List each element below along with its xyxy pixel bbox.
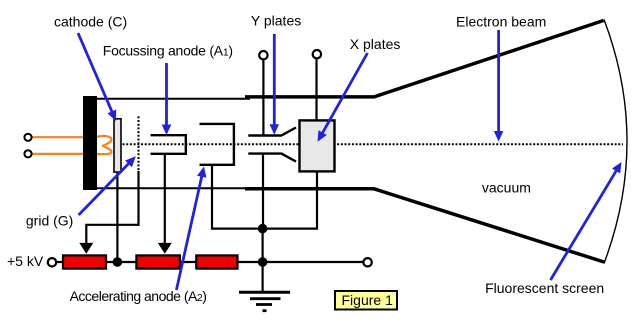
svg-text:Accelerating anode (A2): Accelerating anode (A2) — [70, 288, 207, 304]
svg-text:X plates: X plates — [350, 36, 401, 52]
svg-text:Electron beam: Electron beam — [456, 14, 546, 30]
svg-text:Y plates: Y plates — [251, 13, 301, 29]
svg-text:cathode (C): cathode (C) — [54, 14, 127, 30]
svg-text:Figure 1: Figure 1 — [342, 292, 394, 308]
svg-text:+5 kV: +5 kV — [7, 253, 44, 269]
svg-text:Focussing anode (A1): Focussing anode (A1) — [103, 43, 233, 59]
svg-text:vacuum: vacuum — [482, 180, 531, 196]
svg-text:Fluorescent screen: Fluorescent screen — [485, 280, 604, 296]
svg-text:grid (G): grid (G) — [26, 213, 73, 229]
